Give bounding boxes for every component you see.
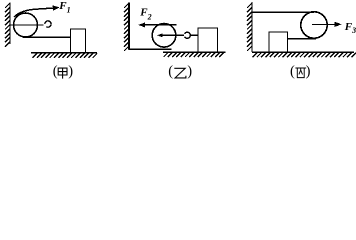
wall (panel jia) (9, 3, 11, 45)
svg-text:): ) (187, 64, 192, 80)
block (panel bing) (269, 32, 288, 52)
block (panel jia) (71, 29, 86, 53)
svg-text:): ) (306, 64, 311, 80)
ground hatching (panel yi) (164, 53, 224, 58)
hook ring (panel jia) (45, 21, 51, 27)
wall (panel yi) (128, 3, 130, 50)
wall hatching (panel yi) (124, 3, 129, 51)
caption (jia) (53, 64, 74, 80)
svg-text:(: ( (168, 64, 173, 80)
ground hatching (panel jia) (33, 53, 98, 58)
ground line (panel bing) (252, 51, 354, 53)
caption (yi) (168, 64, 192, 80)
ground line (panel yi) (163, 51, 226, 53)
svg-text:): ) (68, 64, 73, 80)
floor ledge line (panel yi) (129, 48, 172, 50)
block (panel yi) (198, 28, 218, 52)
wall hatching (panel bing) (247, 3, 252, 51)
force F1 arrow (14, 8, 53, 17)
hook ring (panel yi) (185, 32, 191, 38)
rod with inner arrow (panel yi) (162, 34, 185, 36)
string from block to ball (panel bing) (288, 38, 317, 40)
caption (bing) (290, 64, 311, 80)
svg-text:(: ( (53, 64, 58, 80)
ball (panel jia) (14, 13, 38, 37)
ball (panel yi) (152, 24, 176, 48)
force F2 arrow (144, 24, 177, 26)
wall (panel bing) (251, 2, 253, 52)
ball (panel bing) (301, 12, 327, 38)
ground line (panel jia) (31, 52, 97, 54)
top string from wall to ball (panel bing) (252, 11, 314, 13)
string from ball to block (panel jia) (23, 36, 71, 38)
axle line through ball (10, 24, 44, 26)
ground hatching (panel bing) (253, 53, 356, 58)
wall hatching (panel jia) (5, 3, 10, 47)
svg-text:(: ( (290, 64, 295, 80)
force F3 arrow (312, 23, 335, 25)
string to block (panel yi) (190, 34, 198, 36)
